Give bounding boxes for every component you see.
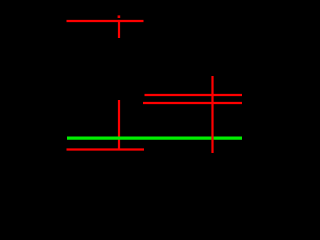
wire bottom red horizontal [67, 148, 145, 150]
wire top red horizontal [67, 20, 144, 22]
wire right red vertical [211, 76, 213, 153]
wire mid red horizontal 1 [145, 94, 243, 96]
wire red vertical lower segment [118, 100, 120, 150]
wire green horizontal [67, 137, 242, 140]
wire red vertical stub from top wire [118, 20, 120, 38]
wire mid red horizontal 2 [143, 102, 242, 104]
junction dot above top wire [118, 15, 121, 18]
